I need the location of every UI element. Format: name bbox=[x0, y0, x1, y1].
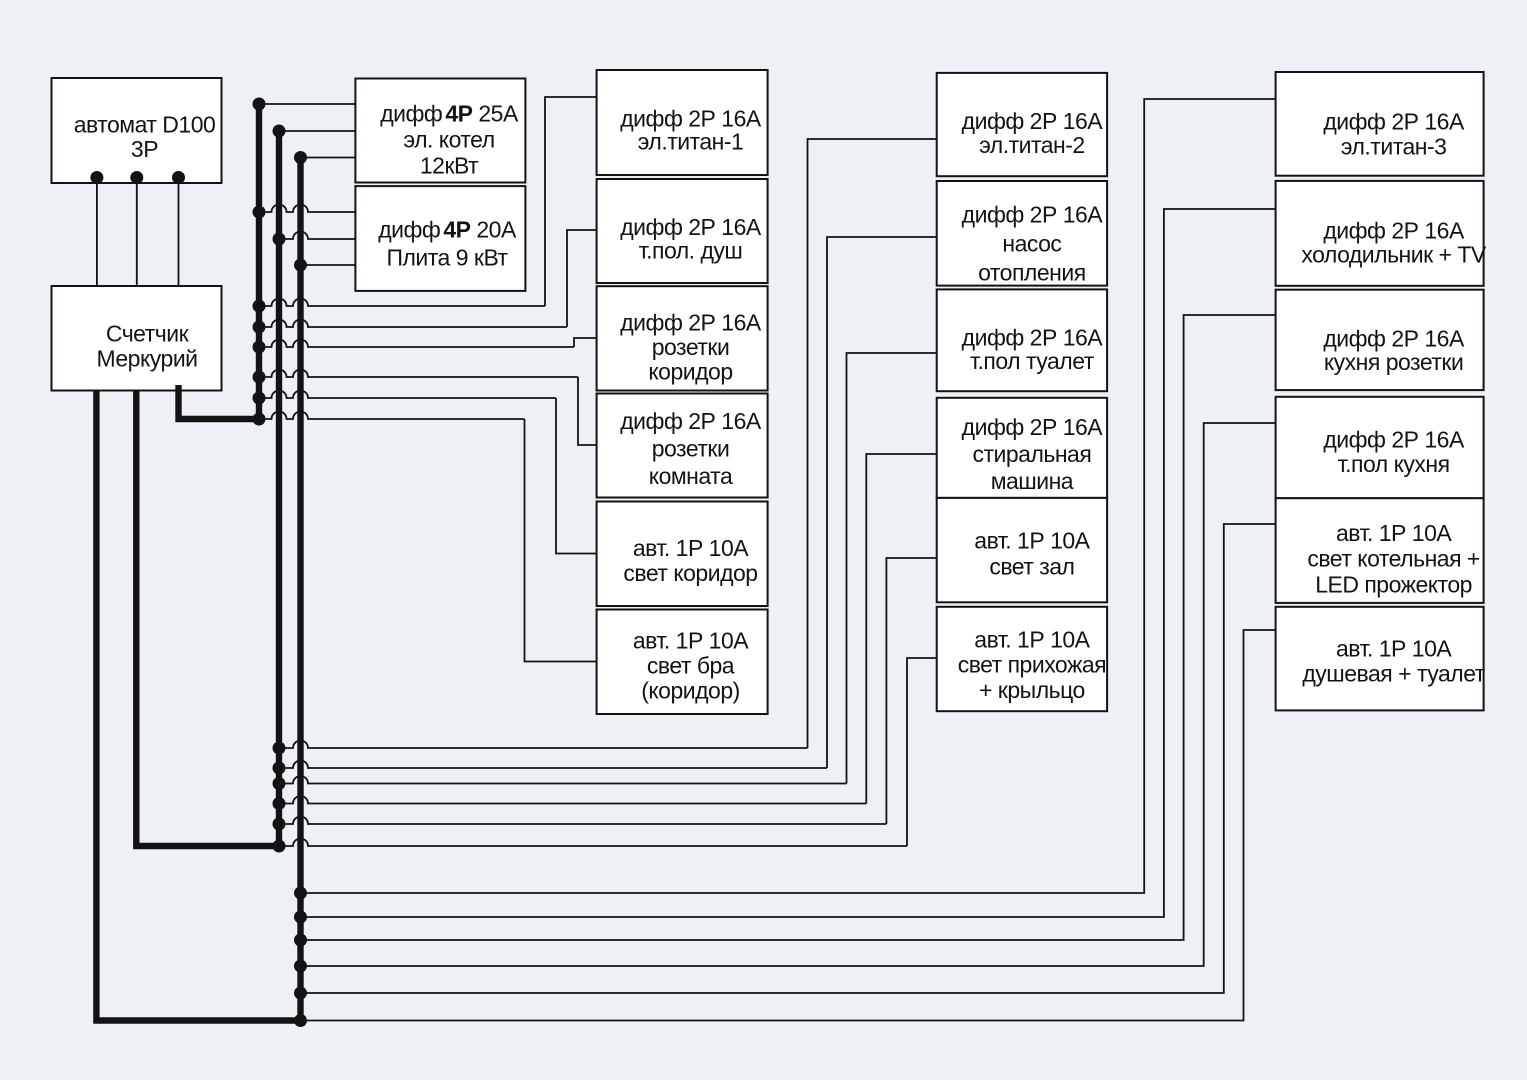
svg-text:комната: комната bbox=[649, 463, 733, 489]
svg-text:т.пол кухня: т.пол кухня bbox=[1338, 451, 1450, 477]
svg-text:свет бра: свет бра bbox=[647, 652, 735, 678]
svg-text:12кВт: 12кВт bbox=[420, 153, 479, 179]
svg-text:LED прожектор: LED прожектор bbox=[1315, 571, 1472, 597]
svg-text:авт. 1Р 10А: авт. 1Р 10А bbox=[974, 626, 1090, 652]
svg-text:дифф 2Р 16А: дифф 2Р 16А bbox=[1323, 426, 1465, 452]
svg-text:эл.титан-3: эл.титан-3 bbox=[1341, 133, 1447, 159]
svg-text:авт. 1Р 10А: авт. 1Р 10А bbox=[1336, 520, 1452, 546]
svg-text:т.пол. душ: т.пол. душ bbox=[639, 237, 743, 263]
svg-text:3Р: 3Р bbox=[131, 136, 158, 162]
svg-text:коридор: коридор bbox=[648, 358, 732, 384]
svg-text:дифф4Р 20А: дифф4Р 20А bbox=[378, 217, 517, 243]
svg-text:(коридор): (коридор) bbox=[641, 677, 740, 703]
svg-text:авт. 1Р 10А: авт. 1Р 10А bbox=[974, 528, 1090, 554]
svg-text:дифф 2Р 16А: дифф 2Р 16А bbox=[962, 414, 1104, 440]
svg-text:кухня розетки: кухня розетки bbox=[1324, 349, 1463, 375]
svg-text:душевая + туалет: душевая + туалет bbox=[1302, 660, 1485, 686]
svg-text:машина: машина bbox=[991, 468, 1074, 494]
svg-text:авт. 1Р 10А: авт. 1Р 10А bbox=[633, 535, 749, 561]
svg-text:дифф 2Р 16А: дифф 2Р 16А bbox=[1323, 217, 1465, 243]
svg-text:дифф 2Р 16А: дифф 2Р 16А bbox=[620, 408, 762, 434]
svg-text:розетки: розетки bbox=[652, 436, 730, 462]
svg-text:дифф 2Р 16А: дифф 2Р 16А bbox=[962, 325, 1104, 351]
svg-text:дифф 2Р 16А: дифф 2Р 16А bbox=[962, 108, 1104, 134]
svg-text:+ крыльцо: + крыльцо bbox=[979, 677, 1085, 703]
svg-text:отопления: отопления bbox=[978, 259, 1086, 285]
svg-text:эл.титан-1: эл.титан-1 bbox=[638, 129, 744, 155]
svg-text:Плита 9 кВт: Плита 9 кВт bbox=[386, 245, 508, 271]
svg-text:свет котельная +: свет котельная + bbox=[1307, 546, 1480, 572]
svg-text:авт. 1Р 10А: авт. 1Р 10А bbox=[633, 627, 749, 653]
svg-text:холодильник + TV: холодильник + TV bbox=[1301, 241, 1487, 267]
svg-text:дифф 2Р 16А: дифф 2Р 16А bbox=[1323, 108, 1465, 134]
svg-text:Счетчик: Счетчик bbox=[106, 321, 190, 347]
svg-text:эл. котел: эл. котел bbox=[403, 127, 494, 153]
svg-text:насос: насос bbox=[1002, 231, 1061, 257]
svg-text:авт. 1Р 10А: авт. 1Р 10А bbox=[1336, 636, 1452, 662]
svg-text:стиральная: стиральная bbox=[972, 441, 1091, 467]
svg-text:эл.титан-2: эл.титан-2 bbox=[979, 132, 1085, 158]
svg-text:т.пол туалет: т.пол туалет bbox=[970, 348, 1095, 374]
svg-text:дифф 2Р 16А: дифф 2Р 16А bbox=[962, 202, 1104, 228]
svg-text:автомат D100: автомат D100 bbox=[74, 111, 216, 137]
svg-text:свет коридор: свет коридор bbox=[623, 560, 757, 586]
svg-text:Меркурий: Меркурий bbox=[96, 346, 197, 372]
svg-text:дифф4Р 25А: дифф4Р 25А bbox=[380, 101, 519, 127]
svg-text:свет зал: свет зал bbox=[989, 554, 1074, 580]
svg-text:дифф 2Р 16А: дифф 2Р 16А bbox=[1323, 326, 1465, 352]
svg-text:дифф 2Р 16А: дифф 2Р 16А bbox=[620, 214, 762, 240]
svg-text:розетки: розетки bbox=[652, 334, 730, 360]
svg-text:дифф 2Р 16А: дифф 2Р 16А bbox=[620, 309, 762, 335]
svg-text:свет прихожая: свет прихожая bbox=[958, 652, 1106, 678]
